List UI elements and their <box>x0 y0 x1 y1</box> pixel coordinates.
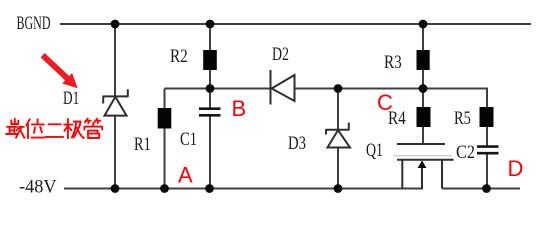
svg-text:D3: D3 <box>288 132 306 153</box>
svg-text:BGND: BGND <box>17 13 51 33</box>
svg-text:C2: C2 <box>456 141 475 162</box>
svg-text:R1: R1 <box>134 133 151 154</box>
svg-text:Q1: Q1 <box>366 139 383 161</box>
svg-text:R5: R5 <box>454 107 471 128</box>
svg-text:C1: C1 <box>180 128 197 149</box>
svg-text:B: B <box>232 96 247 121</box>
svg-text:R2: R2 <box>170 45 188 66</box>
svg-text:A: A <box>178 163 193 188</box>
svg-text:-48V: -48V <box>19 176 57 197</box>
svg-text:D1: D1 <box>63 87 79 109</box>
svg-text:D2: D2 <box>272 43 289 65</box>
svg-text:D: D <box>508 156 524 181</box>
svg-text:C: C <box>377 90 393 115</box>
svg-text:R3: R3 <box>384 51 402 72</box>
